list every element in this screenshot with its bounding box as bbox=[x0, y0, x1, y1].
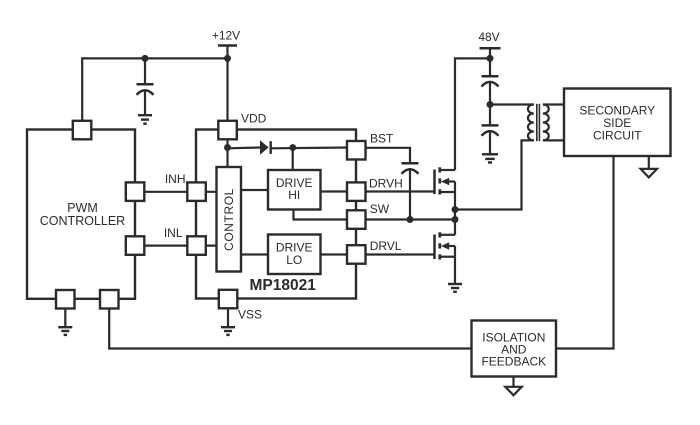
wire secondary top to box bbox=[543, 103, 564, 105]
IC U1 MP18021 outline bbox=[196, 130, 356, 299]
wire diode cathode to BST bbox=[272, 146, 348, 149]
pin PWM bottom B bbox=[100, 290, 119, 309]
wire PWM pinA to ground bbox=[64, 308, 66, 327]
wire +12V rail to PWM bbox=[82, 58, 227, 121]
wire INL net bbox=[135, 245, 217, 247]
pin VSS bbox=[219, 290, 238, 309]
PWM controller box bbox=[27, 130, 135, 299]
wire DRIVE HI to DRVH pin bbox=[321, 190, 348, 192]
pin DRVH bbox=[347, 182, 366, 201]
capacitor C3 bbox=[482, 124, 499, 127]
svg-text:LO: LO bbox=[286, 253, 302, 267]
DRIVE LO block bbox=[268, 235, 321, 275]
SECONDARY SIDE CIRCUIT box bbox=[564, 89, 671, 157]
node M1 source bbox=[452, 206, 459, 213]
svg-text:48V: 48V bbox=[478, 30, 499, 44]
earth E1 under secondary box bbox=[641, 156, 657, 177]
svg-text:VSS: VSS bbox=[238, 308, 262, 322]
capacitor C1 bbox=[137, 83, 154, 86]
transformer T1 core bbox=[536, 104, 538, 141]
wire VSS to ground bbox=[227, 308, 229, 327]
pin PWM top bbox=[73, 121, 92, 140]
node SW-FET bbox=[452, 216, 459, 223]
node cap midpoint bbox=[487, 101, 494, 108]
node diode-drivehi bbox=[289, 144, 296, 151]
wire M1 drain to 48V bbox=[455, 58, 490, 170]
svg-text:CIRCUIT: CIRCUIT bbox=[593, 129, 642, 143]
wire VDD to junction bbox=[226, 139, 228, 147]
wire CONTROL to DRIVE HI bbox=[241, 189, 268, 191]
svg-text:MP18021: MP18021 bbox=[250, 277, 317, 294]
node rail-12V bbox=[224, 55, 231, 62]
pin IC INL bbox=[187, 236, 206, 255]
svg-text:CONTROLLER: CONTROLLER bbox=[40, 214, 125, 228]
svg-text:VDD: VDD bbox=[241, 112, 267, 126]
pin PWM bottom A bbox=[56, 290, 75, 309]
svg-text:DRVL: DRVL bbox=[370, 239, 402, 253]
ground G2 bbox=[221, 327, 235, 335]
svg-text:CONTROL: CONTROL bbox=[222, 188, 236, 251]
wire source node to transformer primary bbox=[455, 140, 534, 209]
ISOLATION AND FEEDBACK box bbox=[472, 321, 557, 377]
wire M2 source to ground bbox=[454, 257, 456, 284]
wire 48V vertical bbox=[489, 48, 491, 76]
wire VDD junction to CONTROL bbox=[226, 148, 228, 168]
transformer T1 secondary winding bbox=[543, 105, 549, 141]
svg-text:INH: INH bbox=[165, 172, 186, 186]
transformer T1 primary winding bbox=[528, 105, 534, 141]
node VDD-diode bbox=[224, 144, 231, 151]
wire SW node to M2 drain bbox=[454, 220, 456, 235]
wire INH net bbox=[135, 191, 217, 193]
ground G5 bbox=[58, 327, 72, 335]
pin DRVL bbox=[347, 245, 366, 264]
wire DRIVE LO to DRVL pin bbox=[321, 253, 348, 255]
+12V supply bar bbox=[218, 44, 237, 47]
svg-text:DRVH: DRVH bbox=[369, 177, 403, 191]
wire cap midpoint to transformer primary bbox=[490, 103, 534, 105]
ground G1 bbox=[138, 115, 152, 124]
pin IC INH bbox=[187, 182, 206, 201]
wire M1 source to SW node bbox=[454, 192, 456, 220]
wire +12V vertical to VDD bbox=[226, 46, 228, 122]
ground G4 bbox=[482, 154, 498, 162]
wire VDD junction to diode anode bbox=[228, 146, 261, 149]
svg-text:FEEDBACK: FEEDBACK bbox=[481, 355, 546, 369]
node 48V-drain bbox=[487, 55, 494, 62]
wire feedback from PWM pinB to isolation box bbox=[109, 308, 471, 348]
svg-text:+12V: +12V bbox=[212, 28, 240, 42]
wire CONTROL to DRIVE LO bbox=[241, 253, 268, 255]
transistor M2 low-side MOSFET bbox=[435, 232, 456, 259]
transistor M1 high-side MOSFET bbox=[435, 167, 456, 194]
diode D1 bbox=[260, 140, 271, 155]
ground G3 bbox=[448, 284, 462, 292]
svg-text:HI: HI bbox=[288, 188, 300, 202]
wire BST net bbox=[366, 148, 411, 163]
wire SW net to FETs bbox=[366, 218, 456, 220]
DRIVE HI block bbox=[268, 170, 321, 210]
svg-text:INL: INL bbox=[164, 226, 183, 240]
pin PWM INL bbox=[126, 236, 145, 255]
wire isolation box to secondary box bbox=[556, 156, 614, 349]
CONTROL block bbox=[217, 167, 242, 272]
capacitor C2 bbox=[482, 75, 499, 78]
capacitor C1 lead bbox=[144, 58, 146, 84]
capacitor C4 lower lead bbox=[409, 170, 411, 220]
wire DRVH pin to M1 gate bbox=[366, 190, 435, 192]
capacitor C1 lower lead bbox=[144, 91, 146, 115]
earth E2 under isolation box bbox=[505, 377, 521, 396]
wire DRIVE HI bottom to SW bbox=[294, 210, 348, 220]
wire secondary bottom to box bbox=[543, 139, 564, 141]
pin BST bbox=[347, 141, 366, 160]
48V supply bar bbox=[480, 47, 501, 50]
capacitor C4 bootstrap bbox=[402, 162, 419, 165]
svg-text:SW: SW bbox=[370, 202, 390, 216]
svg-text:BST: BST bbox=[370, 132, 394, 146]
pin VDD bbox=[218, 121, 237, 140]
junction dots bbox=[142, 55, 494, 223]
node rail-cap bbox=[142, 55, 149, 62]
pin PWM INH bbox=[126, 182, 145, 201]
svg-text:PWM: PWM bbox=[67, 201, 98, 215]
capacitor C3 lower lead bbox=[489, 132, 491, 154]
wire node to DRIVE HI top bbox=[292, 148, 294, 171]
pin SW bbox=[347, 210, 366, 229]
node SW-bootcap bbox=[407, 216, 414, 223]
wire DRVL pin to M2 gate bbox=[366, 253, 435, 255]
capacitor C2 lower lead bbox=[489, 83, 491, 125]
